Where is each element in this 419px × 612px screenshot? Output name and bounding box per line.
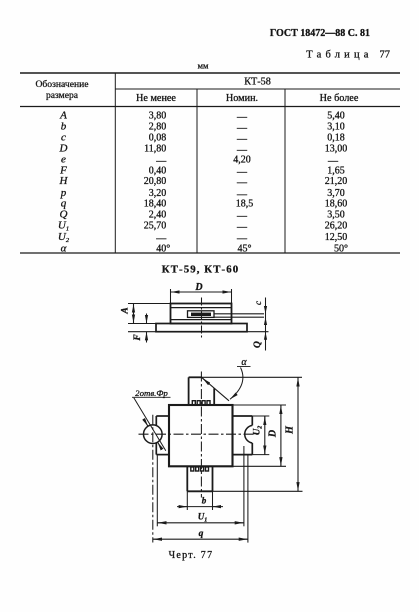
svg-text:Q: Q bbox=[253, 341, 263, 348]
hole leader arrowheads bbox=[144, 419, 162, 449]
right flange notch arc bbox=[245, 425, 253, 443]
table top border bbox=[20, 72, 400, 74]
svg-text:—: — bbox=[236, 112, 248, 123]
svg-text:—: — bbox=[236, 211, 248, 222]
right flange bbox=[233, 416, 253, 455]
svg-text:Обозначение: Обозначение bbox=[35, 79, 88, 90]
top lead outline bbox=[189, 377, 215, 405]
svg-text:Номин.: Номин. bbox=[226, 93, 258, 104]
svg-text:Черт. 77: Черт. 77 bbox=[169, 550, 214, 561]
svg-text:α: α bbox=[61, 242, 67, 254]
lead wire bbox=[214, 314, 264, 317]
dim U2 dimension line bbox=[264, 416, 266, 455]
figure caption bbox=[169, 550, 214, 561]
dim b label bbox=[202, 496, 207, 506]
svg-text:q: q bbox=[199, 529, 204, 539]
crystal filled bar bbox=[191, 313, 211, 316]
svg-text:25,70: 25,70 bbox=[144, 220, 167, 231]
mounting hole circle bbox=[144, 425, 163, 444]
dim Q label bbox=[253, 341, 263, 348]
svg-text:0,08: 0,08 bbox=[149, 132, 167, 143]
svg-text:—: — bbox=[236, 134, 248, 145]
svg-text:мм: мм bbox=[198, 61, 209, 71]
svg-text:18,5: 18,5 bbox=[236, 198, 254, 209]
svg-text:КТ-58: КТ-58 bbox=[244, 77, 271, 88]
svg-text:13,00: 13,00 bbox=[325, 144, 348, 155]
dim H bottom extension line bbox=[213, 490, 303, 492]
dim D extension lines bbox=[171, 289, 232, 304]
svg-text:КТ-59, КТ-60: КТ-59, КТ-60 bbox=[162, 264, 239, 276]
page header ГОСТ bbox=[270, 28, 370, 39]
svg-text:—: — bbox=[236, 178, 248, 189]
svg-text:A: A bbox=[59, 109, 67, 121]
svg-text:50°: 50° bbox=[334, 243, 348, 254]
dim H label bbox=[285, 425, 296, 435]
top lead teeth bbox=[192, 401, 210, 405]
svg-text:D: D bbox=[194, 282, 202, 293]
table column Номин values bbox=[233, 112, 253, 255]
hole vertical centerline and q extension bbox=[152, 415, 154, 543]
svg-text:21,20: 21,20 bbox=[325, 176, 348, 187]
svg-text:H: H bbox=[285, 425, 296, 435]
table header texts bbox=[35, 77, 358, 105]
dim c label bbox=[253, 301, 263, 305]
table vertical divider col1 bbox=[114, 73, 116, 253]
svg-text:0,40: 0,40 bbox=[149, 165, 167, 176]
svg-text:—: — bbox=[236, 167, 248, 178]
svg-text:4,20: 4,20 bbox=[233, 154, 251, 165]
table vertical divider col2 bbox=[196, 89, 198, 253]
svg-text:40°: 40° bbox=[156, 243, 170, 254]
chamfer diagonal bbox=[202, 378, 229, 401]
side view centerline bbox=[201, 298, 203, 339]
dim F arrows bbox=[146, 314, 148, 343]
table header bottom line bbox=[20, 106, 400, 108]
svg-text:Не более: Не более bbox=[320, 93, 359, 104]
crystal holder block bbox=[188, 311, 215, 318]
table column of size letters bbox=[58, 109, 70, 254]
svg-text:A: A bbox=[121, 307, 131, 314]
svg-text:ГОСТ 18472—88 С. 81: ГОСТ 18472—88 С. 81 bbox=[270, 28, 370, 39]
dim D2 dimension line bbox=[280, 405, 282, 466]
svg-text:3,80: 3,80 bbox=[149, 110, 167, 121]
dim b extension lines bbox=[187, 491, 212, 510]
svg-text:3,10: 3,10 bbox=[327, 122, 345, 133]
svg-text:D: D bbox=[268, 430, 279, 438]
section heading КТ-59, КТ-60 bbox=[162, 264, 239, 276]
bottom lead outline bbox=[187, 466, 212, 491]
dim D label bbox=[194, 282, 202, 293]
svg-text:Не менее: Не менее bbox=[136, 93, 176, 104]
left flange bbox=[156, 416, 169, 455]
table bottom border bbox=[20, 252, 400, 254]
svg-text:c: c bbox=[253, 301, 263, 305]
svg-text:20,80: 20,80 bbox=[144, 176, 167, 187]
svg-text:45°: 45° bbox=[238, 243, 252, 254]
dim U1 extension lines bbox=[157, 446, 244, 526]
svg-text:3,20: 3,20 bbox=[149, 188, 167, 199]
svg-text:5,40: 5,40 bbox=[327, 110, 345, 121]
table column Не более values bbox=[325, 110, 348, 254]
dim A dimension line bbox=[133, 304, 135, 324]
hole label underline bbox=[132, 396, 171, 398]
dim D2 extension lines bbox=[233, 405, 287, 466]
dim A extension lines bbox=[128, 304, 171, 324]
body cap line bbox=[171, 307, 232, 309]
svg-text:размера: размера bbox=[46, 90, 79, 101]
dim c arrowheads bbox=[264, 306, 267, 325]
dim q label bbox=[199, 529, 204, 539]
svg-text:3,70: 3,70 bbox=[327, 188, 345, 199]
dim H dimension line bbox=[297, 377, 299, 491]
svg-text:12,50: 12,50 bbox=[325, 232, 348, 243]
flange outline bbox=[156, 324, 247, 332]
svg-text:3,50: 3,50 bbox=[327, 210, 345, 221]
dim U1 dimension line bbox=[157, 522, 244, 524]
svg-text:1,65: 1,65 bbox=[327, 165, 345, 176]
svg-text:2,80: 2,80 bbox=[149, 122, 167, 133]
hole count label 2отв.Фр bbox=[135, 388, 168, 398]
svg-text:H: H bbox=[59, 175, 69, 187]
bottom lead teeth bbox=[191, 467, 209, 471]
svg-text:—: — bbox=[236, 123, 248, 134]
svg-text:—: — bbox=[236, 222, 248, 233]
hole diameter leader line bbox=[134, 398, 166, 451]
units label мм bbox=[198, 61, 209, 71]
dim A label bbox=[121, 307, 131, 314]
dim D2 label bbox=[268, 430, 279, 438]
dim q extension line right bbox=[247, 456, 249, 543]
dim U2 extension lines bbox=[252, 416, 269, 455]
dim F label bbox=[133, 334, 143, 342]
chamfer arrowhead bbox=[203, 378, 209, 384]
dim U2 label bbox=[252, 426, 264, 436]
svg-text:26,20: 26,20 bbox=[325, 220, 348, 231]
body square bbox=[169, 405, 233, 466]
horizontal centerline bbox=[139, 433, 259, 435]
svg-text:q: q bbox=[61, 197, 67, 209]
table line under KT-58 bbox=[115, 88, 400, 90]
top extension line for H bbox=[202, 376, 302, 378]
alpha label bbox=[241, 357, 247, 368]
svg-text:U1: U1 bbox=[198, 512, 208, 524]
dim c and Q vertical line bbox=[265, 298, 267, 351]
dim D dimension line bbox=[171, 291, 232, 293]
dim U1 label bbox=[198, 512, 208, 524]
svg-text:0,18: 0,18 bbox=[327, 132, 345, 143]
table vertical divider col3 bbox=[284, 89, 286, 253]
svg-text:2,40: 2,40 bbox=[149, 210, 167, 221]
svg-text:F: F bbox=[133, 334, 143, 342]
package body outline bbox=[171, 304, 232, 324]
svg-text:b: b bbox=[202, 496, 207, 506]
dim Q arrowhead bbox=[264, 332, 267, 340]
vertical centerline bbox=[200, 372, 202, 498]
svg-text:18,60: 18,60 bbox=[325, 198, 348, 209]
svg-text:U2: U2 bbox=[252, 426, 264, 436]
dim b dimension line with outside arrows bbox=[177, 506, 223, 508]
svg-text:2отв.Фр: 2отв.Фр bbox=[135, 388, 168, 398]
angle alpha arc bbox=[230, 368, 243, 400]
table column Не менее values bbox=[144, 110, 171, 254]
svg-text:18,40: 18,40 bbox=[144, 198, 167, 209]
svg-text:Таблица 77: Таблица 77 bbox=[306, 50, 390, 61]
dim q dimension line bbox=[153, 538, 248, 540]
alpha label underline bbox=[237, 366, 251, 368]
svg-text:11,80: 11,80 bbox=[144, 144, 166, 155]
table caption Таблица 77 bbox=[306, 50, 390, 61]
dim F extension line bbox=[128, 331, 156, 333]
dim Q extension line bbox=[247, 331, 269, 333]
body base line bbox=[171, 319, 232, 321]
